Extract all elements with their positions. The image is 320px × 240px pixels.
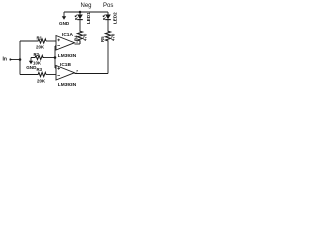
svg-text:Neg: Neg (81, 3, 92, 9)
svg-text:R3: R3 (37, 67, 43, 72)
svg-text:GND: GND (26, 65, 37, 70)
svg-text:LED1: LED1 (86, 12, 91, 24)
svg-text:7: 7 (76, 70, 78, 74)
wire In bus to R3 (20, 74, 37, 76)
wire ref bus to IC1A minus (55, 45, 56, 47)
wire R5 bottom lead (107, 41, 109, 74)
svg-text:IC1A: IC1A (62, 32, 73, 38)
svg-text:20K: 20K (37, 78, 46, 83)
wire ref bus to IC1B plus (55, 67, 56, 69)
svg-text:LED2: LED2 (113, 12, 118, 24)
svg-text:IC1B: IC1B (60, 62, 71, 68)
resistor R2 (31, 55, 44, 59)
svg-text:R2: R2 (34, 52, 40, 57)
op-amp U2 IC1B (56, 66, 75, 81)
svg-text:GND: GND (59, 21, 70, 26)
wire top rail GND net (64, 11, 108, 13)
node junction dot ref (54, 56, 57, 59)
wire R1 to IC1A plus input (46, 40, 56, 42)
resistor R3 (37, 72, 46, 76)
svg-text:Pos: Pos (103, 3, 113, 9)
svg-text:20K: 20K (36, 45, 45, 50)
op-amp IC1A minus input symbol (57, 45, 60, 47)
resistor R5 (105, 31, 110, 42)
node junction dot In (19, 58, 22, 61)
wire In bus to R1 (20, 40, 37, 42)
node junction dot LED1/rail (79, 11, 82, 14)
node In arrowhead (10, 58, 13, 61)
op-amp IC1B minus input symbol (57, 75, 60, 77)
resistor R1 (37, 39, 46, 43)
svg-text:470: 470 (111, 33, 116, 41)
svg-text:LM393N: LM393N (58, 53, 77, 59)
wire node In vertical bus (19, 41, 21, 75)
wire IC1B output (75, 73, 109, 75)
wire R3 to IC1B minus (46, 74, 56, 76)
resistor R4 (77, 31, 82, 45)
svg-text:LM393N: LM393N (58, 82, 77, 88)
LED LED2 (103, 12, 111, 31)
wire node ref bus (54, 46, 56, 68)
svg-text:In: In (3, 57, 7, 63)
svg-text:1: 1 (76, 40, 78, 44)
svg-text:R1: R1 (37, 36, 43, 41)
op-amp U1 IC1A (56, 36, 75, 51)
op-amp IC1B plus input symbol (57, 67, 60, 70)
wire R2 to ground (30, 58, 32, 62)
wire R2 to ref bus (44, 57, 55, 59)
ground GND2 (29, 61, 33, 64)
svg-text:470: 470 (83, 33, 88, 41)
ground GND1 (62, 12, 66, 20)
wire In terminal (10, 59, 21, 61)
LED LED1 (75, 12, 83, 31)
wire IC1A output to R4 (75, 43, 81, 45)
op-amp IC1A plus input symbol (57, 39, 60, 42)
svg-text:R5: R5 (100, 36, 105, 42)
